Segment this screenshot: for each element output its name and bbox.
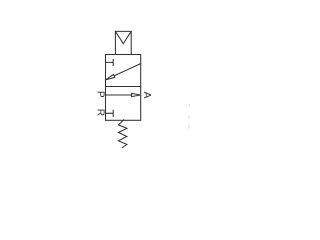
svg-text:A: A	[141, 92, 152, 99]
blocked port T (top square, P blocked)	[106, 59, 114, 65]
arrowhead toward A	[132, 93, 141, 96]
flow path A to R (diagonal)	[114, 64, 141, 76]
blocked port T (bottom square, R blocked)	[106, 110, 114, 116]
position divider	[106, 86, 141, 88]
push-button actuator (V in rectangle)	[115, 31, 131, 54]
svg-text:P: P	[94, 91, 105, 98]
arrowhead toward R	[106, 74, 115, 79]
return spring	[118, 120, 127, 148]
svg-text:R: R	[94, 109, 105, 116]
valve body outline	[106, 55, 141, 121]
faint edge artifacts	[188, 105, 190, 129]
flow path P to A (horizontal)	[106, 94, 133, 96]
